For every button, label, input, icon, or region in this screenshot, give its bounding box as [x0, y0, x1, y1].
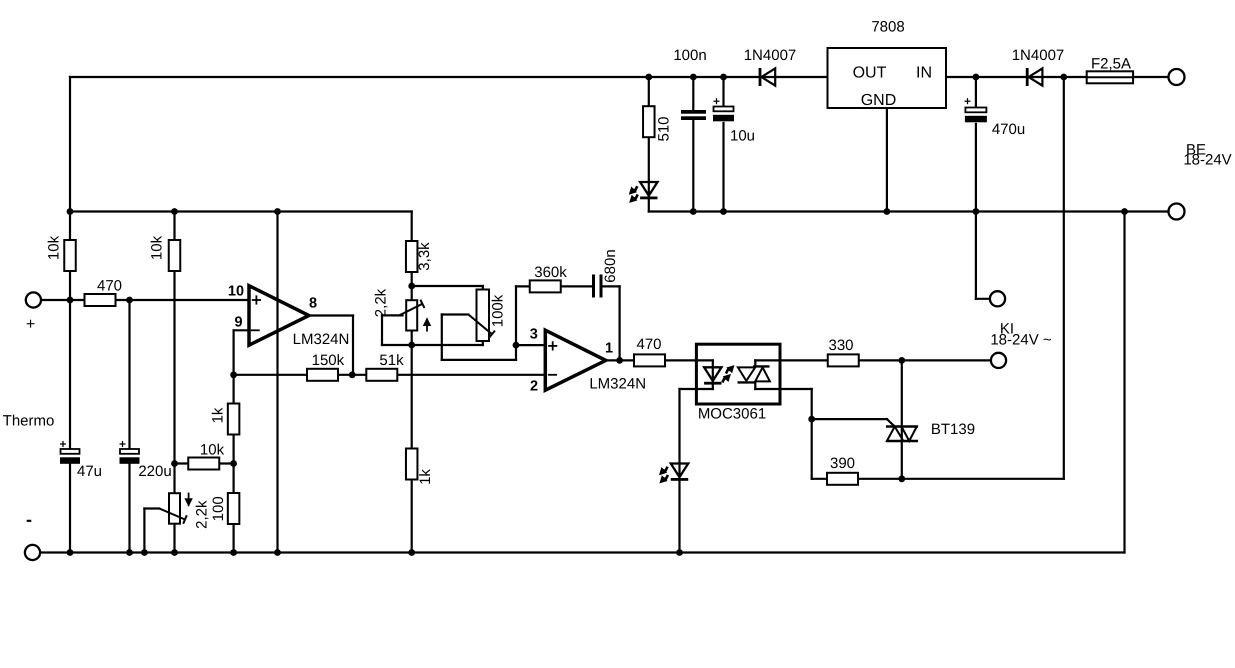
svg-text:360k: 360k [534, 264, 567, 281]
svg-text:IN: IN [916, 65, 932, 82]
svg-text:10u: 10u [730, 128, 755, 145]
svg-text:470u: 470u [992, 121, 1025, 138]
svg-text:GND: GND [861, 92, 897, 109]
svg-text:BT139: BT139 [931, 421, 975, 438]
svg-text:390: 390 [830, 455, 855, 472]
svg-text:-: - [26, 510, 32, 530]
svg-text:100k: 100k [490, 294, 507, 327]
svg-text:1k: 1k [210, 407, 227, 423]
svg-text:18-24V: 18-24V [1183, 152, 1231, 169]
svg-text:10: 10 [228, 284, 244, 300]
svg-text:10k: 10k [200, 441, 225, 458]
svg-text:OUT: OUT [853, 65, 887, 82]
svg-text:220u: 220u [138, 463, 171, 480]
svg-text:1N4007: 1N4007 [1012, 47, 1065, 64]
svg-text:10k: 10k [45, 235, 62, 260]
svg-text:18-24V ~: 18-24V ~ [990, 332, 1052, 349]
svg-text:LM324N: LM324N [589, 375, 646, 392]
svg-text:2: 2 [530, 379, 538, 395]
svg-text:+: + [26, 316, 35, 333]
svg-text:3: 3 [530, 326, 538, 342]
svg-text:MOC3061: MOC3061 [698, 406, 766, 423]
svg-text:680n: 680n [602, 249, 619, 282]
svg-text:LM324N: LM324N [293, 331, 350, 348]
svg-text:10k: 10k [149, 235, 166, 260]
svg-text:Thermo: Thermo [3, 413, 55, 430]
svg-text:470: 470 [636, 336, 661, 353]
svg-text:9: 9 [234, 315, 242, 331]
svg-text:3,3k: 3,3k [416, 242, 433, 271]
svg-text:470: 470 [97, 278, 122, 295]
svg-text:47u: 47u [77, 463, 102, 480]
svg-text:F2,5A: F2,5A [1091, 55, 1131, 72]
svg-text:7808: 7808 [871, 18, 904, 35]
svg-text:51k: 51k [379, 352, 404, 369]
svg-text:100: 100 [210, 496, 227, 521]
svg-text:1k: 1k [417, 469, 434, 485]
svg-text:510: 510 [656, 116, 673, 141]
svg-text:100n: 100n [673, 47, 706, 64]
svg-text:330: 330 [828, 337, 853, 354]
svg-text:150k: 150k [312, 352, 345, 369]
svg-text:2,2k: 2,2k [194, 500, 211, 529]
svg-text:1N4007: 1N4007 [744, 47, 797, 64]
svg-text:2,2k: 2,2k [373, 288, 390, 317]
svg-text:1: 1 [605, 340, 613, 356]
svg-text:8: 8 [309, 295, 317, 311]
